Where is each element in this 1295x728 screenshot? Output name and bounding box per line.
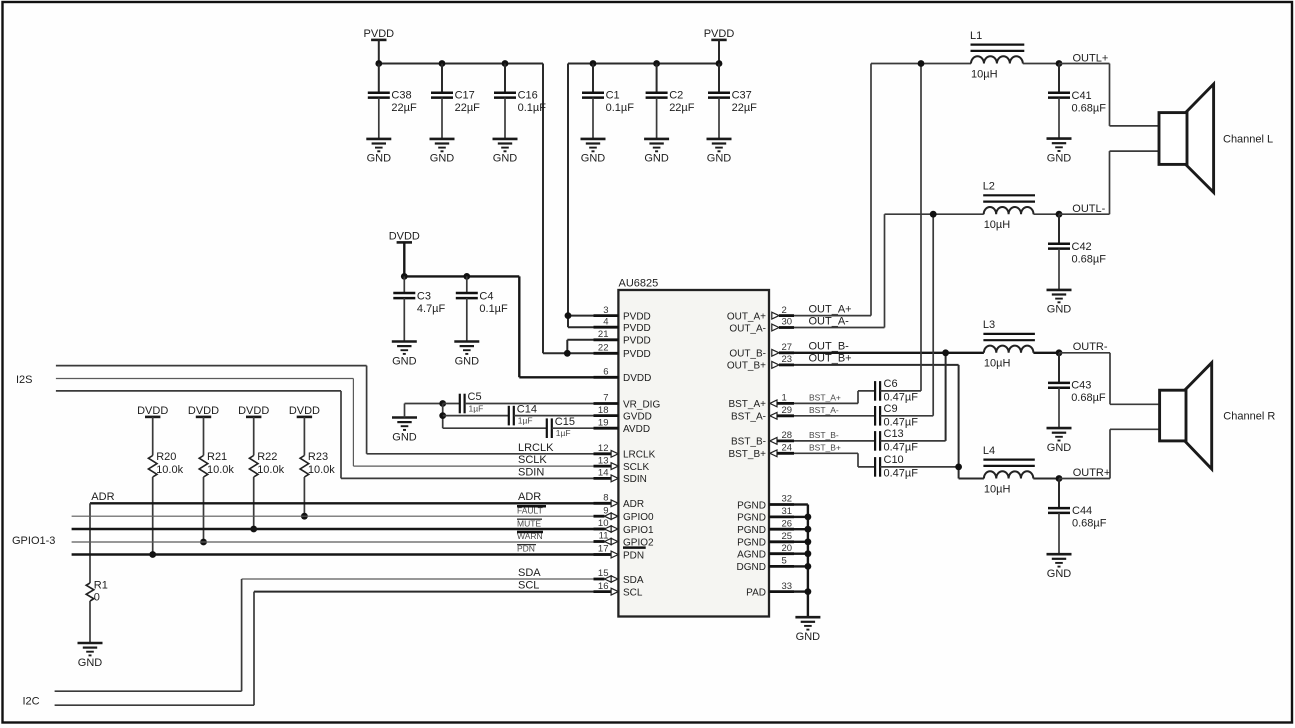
svg-text:L4: L4 [983,445,995,457]
svg-text:BST_A-: BST_A- [809,405,839,415]
svg-text:GVDD: GVDD [623,411,652,422]
svg-text:I2C: I2C [23,696,40,708]
wire OUT_A+ to L1 [794,64,971,316]
ground [78,643,103,669]
svg-text:C10: C10 [884,454,904,466]
pin 3 PVDD [594,305,651,323]
wire [794,516,808,518]
svg-text:PVDD: PVDD [704,28,735,40]
svg-text:2: 2 [782,305,787,316]
wire OUT_B- to L3 [794,352,984,354]
svg-text:21: 21 [598,329,609,340]
svg-text:C5: C5 [468,391,482,403]
ground [1047,139,1072,165]
svg-text:24: 24 [782,443,793,454]
wire OUTL+ to speaker [1059,64,1159,126]
svg-text:OUTL-: OUTL- [1072,203,1105,215]
svg-text:27: 27 [782,342,793,353]
svg-text:DVDD: DVDD [389,231,420,243]
svg-text:SCLK: SCLK [623,462,649,473]
svg-text:GND: GND [581,153,606,165]
wire pin21-22 link [566,340,568,354]
node PVDD rail junction C38 [375,60,382,67]
inductor L3 [983,319,1035,370]
svg-text:PGND: PGND [737,513,766,524]
wire PGND bus [794,505,808,618]
svg-text:10µH: 10µH [984,483,1011,495]
svg-text:C43: C43 [1071,379,1091,391]
net label WARN [517,531,543,541]
svg-text:DVDD: DVDD [188,405,219,417]
svg-text:DVDD: DVDD [623,373,651,384]
svg-text:R23: R23 [308,451,328,463]
svg-text:PVDD: PVDD [623,311,651,322]
svg-text:1: 1 [782,393,787,404]
capacitor C9 [875,403,933,429]
node PGND junction [805,526,812,533]
svg-text:GND: GND [1047,442,1072,454]
svg-text:26: 26 [782,518,793,529]
svg-text:OUT_B+: OUT_B+ [809,353,852,365]
wire [1033,352,1059,354]
wire [1033,478,1059,480]
pin 30 OUT_A- [729,317,794,335]
wire [794,553,808,555]
svg-text:4: 4 [603,316,608,327]
svg-text:Channel R: Channel R [1223,411,1275,423]
pin 23 OUT_B+ [727,354,794,372]
svg-text:0.47µF: 0.47µF [884,416,919,428]
wire BST_B+ [794,453,875,467]
pin 4 PVDD [594,316,651,334]
pin 12 LRCLK [594,443,656,461]
wire PVDD riser to pins 3-4 [567,64,569,328]
svg-text:8: 8 [603,493,608,504]
svg-text:C15: C15 [555,416,575,428]
node PGND junction [805,588,812,595]
svg-text:C38: C38 [391,89,411,101]
svg-text:31: 31 [782,506,793,517]
capacitor C4 [456,276,508,341]
wire [794,528,808,530]
svg-text:PVDD: PVDD [623,336,651,347]
svg-text:C42: C42 [1072,241,1092,253]
ground [1047,290,1072,316]
wire WARN row [72,541,612,543]
resistor R21 [199,417,234,542]
node DVDD junction C4 [463,273,470,280]
svg-text:PDN: PDN [623,550,644,561]
svg-text:SCL: SCL [518,580,539,592]
wire [794,541,808,543]
svg-text:GND: GND [707,153,732,165]
wire vertical bus [442,404,444,429]
wire DVDD rail [404,275,519,277]
pin 21 PVDD [594,329,651,347]
pin 10 GPIO1 [594,518,655,536]
capacitor C17 [431,64,480,139]
wire DVDD riser to pin 6 [518,276,520,377]
ground [795,617,820,643]
svg-text:ADR: ADR [623,499,644,510]
ground [493,139,518,165]
svg-text:GPIO1-3: GPIO1-3 [12,535,55,547]
node OUTL+ [1056,60,1063,67]
svg-text:C41: C41 [1072,90,1092,102]
pin 8 ADR [594,493,645,511]
node DVDD junction C3 [401,273,408,280]
capacitor C41 [1048,64,1106,139]
svg-text:0.68µF: 0.68µF [1072,517,1107,529]
svg-text:AU6825: AU6825 [619,277,659,289]
svg-text:BST_A+: BST_A+ [728,399,766,410]
svg-text:14: 14 [598,468,609,479]
svg-text:0: 0 [94,592,100,604]
wire BST_A+ [794,391,875,404]
net label MUTE [517,518,542,528]
svg-text:R21: R21 [207,451,227,463]
svg-text:C16: C16 [518,89,538,101]
pin 24 BST_B+ [728,443,794,461]
pin 7 VR_DIG [594,393,661,411]
svg-text:0.68µF: 0.68µF [1071,392,1106,404]
svg-text:32: 32 [782,494,793,505]
pin 20 AGND [737,543,794,561]
ground [707,139,732,165]
svg-text:Channel L: Channel L [1223,133,1273,145]
svg-text:OUTR+: OUTR+ [1073,467,1111,479]
node PGND junction [805,550,812,557]
svg-text:C37: C37 [732,89,752,101]
svg-text:GND: GND [1047,152,1072,164]
node PVDD rail junction C17 [439,60,446,67]
svg-text:0.47µF: 0.47µF [884,468,919,480]
svg-text:22µF: 22µF [669,102,695,114]
svg-text:C1: C1 [606,89,620,101]
ground [644,139,669,165]
wire PDN row [72,553,612,555]
svg-text:GND: GND [1047,568,1072,580]
wire pin22 PVDD [543,352,594,354]
svg-text:OUTR-: OUTR- [1073,341,1108,353]
svg-text:C2: C2 [669,89,683,101]
pin 28 BST_B- [731,430,794,448]
capacitor C5 [443,391,594,413]
wire [1023,63,1059,65]
node pin22 junction [564,350,571,357]
node junction R20 [149,551,156,558]
ground [1047,554,1072,580]
capacitor C14 [443,403,594,425]
wire C6 riser [920,64,922,391]
svg-text:0.68µF: 0.68µF [1072,253,1107,265]
ground [392,418,417,444]
inductor L4 [983,445,1035,496]
svg-text:GPIO1: GPIO1 [623,525,654,536]
svg-text:OUT_B-: OUT_B- [809,341,850,353]
pin 31 PGND [737,506,794,524]
resistor R23 [300,417,335,516]
power symbol DVDD (R21) [188,405,219,417]
speaker Channel R [1160,363,1212,469]
svg-text:GND: GND [796,631,821,643]
svg-text:0.47µF: 0.47µF [884,442,919,454]
svg-text:AGND: AGND [737,550,766,561]
wire [1034,213,1060,215]
node PVDD rail junction C2 [653,60,660,67]
wire pin4 PVDD [568,326,594,328]
svg-text:I2S: I2S [16,374,33,386]
svg-text:23: 23 [782,354,793,365]
svg-text:19: 19 [598,417,609,428]
capacitor C37 [708,64,757,139]
pin 5 DGND [737,556,794,574]
wire [718,40,720,64]
svg-text:10µH: 10µH [971,68,998,80]
capacitor C16 [494,64,546,139]
node junction R22 [250,526,257,533]
svg-text:BST_B-: BST_B- [731,437,766,448]
svg-text:GND: GND [78,657,103,669]
svg-text:33: 33 [782,581,793,592]
svg-text:10.0k: 10.0k [207,464,234,476]
svg-text:BST_A+: BST_A+ [809,392,841,402]
svg-text:OUT_A+: OUT_A+ [727,311,766,322]
capacitor C38 [368,64,417,139]
svg-text:10.0k: 10.0k [308,464,335,476]
svg-text:OUT_B+: OUT_B+ [727,361,766,372]
svg-text:29: 29 [782,405,793,416]
wire [378,40,380,64]
power symbol DVDD (R23) [289,405,320,417]
ground [581,139,606,165]
wire OUTR+ to speaker [1059,429,1160,478]
svg-text:L2: L2 [983,181,995,193]
svg-text:1µF: 1µF [469,403,484,413]
svg-text:BST_B-: BST_B- [809,430,839,440]
node OUTR+ [1056,475,1063,482]
pin 9 GPIO0 [594,505,655,523]
svg-text:GND: GND [392,355,417,367]
svg-text:PVDD: PVDD [623,323,651,334]
svg-text:10µH: 10µH [984,358,1011,370]
pin 2 OUT_A+ [727,305,794,323]
capacitor C2 [646,64,695,139]
wire SDIN from I2S [56,391,611,479]
node junction [439,400,446,407]
power symbol DVDD (main) [389,231,420,243]
node PVDD rail junction C37 [716,60,723,67]
pin 22 PVDD [594,343,651,361]
capacitor C10 [875,454,959,480]
svg-text:0.1µF: 0.1µF [518,102,547,114]
pin 1 BST_A+ [728,393,794,411]
inductor L1 [970,30,1024,81]
wire [403,242,405,276]
svg-text:10µH: 10µH [984,219,1011,231]
svg-text:0.47µF: 0.47µF [884,392,919,404]
svg-text:GND: GND [493,153,518,165]
node junction R21 [200,539,207,546]
wire [405,403,443,405]
svg-text:SCLK: SCLK [518,454,547,466]
pin 15 SDA [594,568,644,586]
svg-text:18: 18 [598,405,609,416]
ground [392,342,417,368]
node OUTR- [1056,349,1063,356]
svg-text:1µF: 1µF [556,428,571,438]
pin 19 AVDD [594,417,651,435]
svg-text:28: 28 [782,430,793,441]
svg-text:OUT_A+: OUT_A+ [809,303,852,315]
power symbol DVDD (R22) [238,405,269,417]
svg-text:17: 17 [598,544,609,555]
svg-text:GND: GND [644,153,669,165]
capacitor C43 [1048,353,1106,428]
pin 33 PAD [746,581,794,599]
pin 13 SCLK [594,455,650,473]
wire OUT_B+ to L4 [794,365,984,479]
svg-text:OUT_B-: OUT_B- [729,349,766,360]
wire [794,565,808,567]
svg-text:7: 7 [603,393,608,404]
op-amp U1 AU6825 body [618,290,769,617]
capacitor C13 [875,428,946,454]
svg-text:C3: C3 [417,291,431,303]
svg-text:BST_B+: BST_B+ [809,442,841,452]
svg-text:SCL: SCL [623,587,643,598]
svg-text:PAD: PAD [746,587,766,598]
speaker Channel L [1159,84,1214,192]
svg-text:R22: R22 [257,451,277,463]
pin 29 BST_A- [731,405,794,423]
capacitor C42 [1048,214,1106,290]
svg-text:DGND: DGND [737,562,766,573]
pin 14 SDIN [594,468,647,486]
wire C9 riser [932,214,934,416]
wire pin21 PVDD [567,339,593,341]
node PGND junction [805,538,812,545]
wire OUTR- to speaker [1059,353,1160,405]
power symbol PVDD (left) [364,28,395,40]
svg-text:OUT_A-: OUT_A- [809,315,850,327]
pin 25 PGND [737,531,794,549]
ground [1047,428,1072,454]
svg-text:DVDD: DVDD [289,405,320,417]
pin 16 SCL [594,581,643,599]
wire FAULT row [72,515,612,517]
svg-text:SDA: SDA [623,575,644,586]
svg-text:0.68µF: 0.68µF [1072,102,1107,114]
svg-text:BST_A-: BST_A- [731,412,766,423]
node OUTR- net junction [942,349,949,356]
wire [794,590,808,592]
svg-text:C4: C4 [479,291,493,303]
pin 26 PGND [737,518,794,536]
node junction [439,412,446,419]
svg-text:PVDD: PVDD [623,349,651,360]
wire pin6 DVDD [519,376,593,378]
svg-text:ADR: ADR [518,491,541,503]
svg-text:LRCLK: LRCLK [518,442,554,454]
node PVDD rail junction C16 [502,60,509,67]
svg-text:22µF: 22µF [455,102,481,114]
wire SDA row [55,579,612,691]
pin 11 GPIO2 [594,531,655,549]
svg-text:R1: R1 [94,579,108,591]
svg-text:25: 25 [782,531,793,542]
svg-text:GND: GND [1047,304,1072,316]
svg-text:LRCLK: LRCLK [623,450,656,461]
svg-text:9: 9 [603,505,608,516]
wire LRCLK from I2S [56,366,611,454]
svg-text:C6: C6 [884,378,898,390]
svg-text:0.1µF: 0.1µF [606,102,635,114]
svg-text:ADR: ADR [91,491,114,503]
capacitor C3 [393,276,445,341]
svg-text:SDIN: SDIN [518,466,544,478]
pin 6 DVDD [594,367,652,385]
svg-text:GND: GND [430,153,455,165]
svg-text:GND: GND [367,153,392,165]
pin 18 GVDD [594,405,652,423]
resistor R22 [249,417,284,529]
svg-text:15: 15 [598,568,609,579]
ground [454,342,479,368]
pin 32 PGND [737,494,794,512]
capacitor C1 [582,64,634,139]
svg-text:1µF: 1µF [518,416,533,426]
wire pin3 PVDD [568,315,594,317]
svg-text:22µF: 22µF [391,102,417,114]
net label FAULT [517,506,546,516]
svg-text:PGND: PGND [737,538,766,549]
ground [366,139,391,165]
svg-text:BST_B+: BST_B+ [728,449,766,460]
wire SCL row [55,592,612,706]
node PVDD rail junction C1 [590,60,597,67]
resistor R20 [148,417,183,555]
svg-text:11: 11 [599,531,609,542]
ground [430,139,455,165]
wire SCLK from I2S [56,379,611,467]
capacitor C15 [443,416,594,438]
pin 27 OUT_B- [729,342,794,360]
svg-text:GPIO0: GPIO0 [623,512,654,523]
wire OUTL- to speaker [1059,151,1159,214]
svg-text:R20: R20 [156,451,176,463]
svg-text:PGND: PGND [737,525,766,536]
svg-text:DVDD: DVDD [137,405,168,417]
capacitor C44 [1048,479,1107,555]
svg-text:OUT_A-: OUT_A- [729,323,766,334]
svg-text:16: 16 [598,581,609,592]
svg-text:OUTL+: OUTL+ [1073,52,1109,64]
svg-text:L3: L3 [983,319,995,331]
svg-text:C13: C13 [884,428,904,440]
svg-text:10.0k: 10.0k [257,464,284,476]
svg-text:GND: GND [455,355,480,367]
wire C13 riser [945,353,947,441]
svg-text:DVDD: DVDD [238,405,269,417]
node OUTL- net junction [930,211,937,218]
node C10 junction [955,464,962,471]
svg-text:20: 20 [782,543,793,554]
wire ADR row [90,502,611,504]
node junction R23 [301,513,308,520]
svg-text:3: 3 [603,305,608,316]
wire PVDD rail left [379,63,543,65]
